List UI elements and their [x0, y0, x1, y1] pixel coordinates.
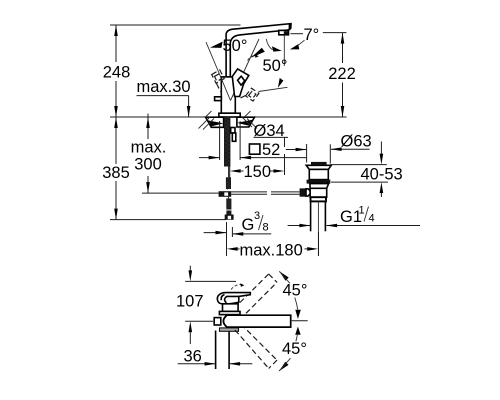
svg-text:50°: 50° [263, 57, 288, 75]
svg-text:G: G [242, 216, 255, 234]
svg-text:107: 107 [176, 293, 204, 311]
svg-text:45°: 45° [282, 340, 307, 358]
svg-text:50°: 50° [223, 37, 248, 55]
svg-text:385: 385 [102, 164, 130, 182]
svg-text:7°: 7° [304, 26, 320, 44]
svg-text:36: 36 [184, 348, 202, 366]
svg-text:300: 300 [134, 156, 162, 174]
svg-text:40-53: 40-53 [361, 166, 403, 184]
svg-text:248: 248 [103, 64, 131, 82]
svg-text:max.30: max.30 [137, 78, 191, 96]
svg-text:4: 4 [369, 213, 375, 225]
svg-text:8: 8 [263, 222, 269, 234]
svg-text:222: 222 [328, 65, 356, 83]
svg-text:Ø63: Ø63 [341, 133, 372, 151]
svg-text:max.180: max.180 [240, 242, 303, 260]
svg-text:45°: 45° [283, 282, 308, 300]
svg-text:1: 1 [359, 205, 365, 217]
svg-text:52: 52 [262, 141, 280, 159]
svg-text:max.: max. [131, 139, 167, 157]
svg-text:3: 3 [254, 210, 260, 222]
svg-text:150: 150 [244, 163, 272, 181]
